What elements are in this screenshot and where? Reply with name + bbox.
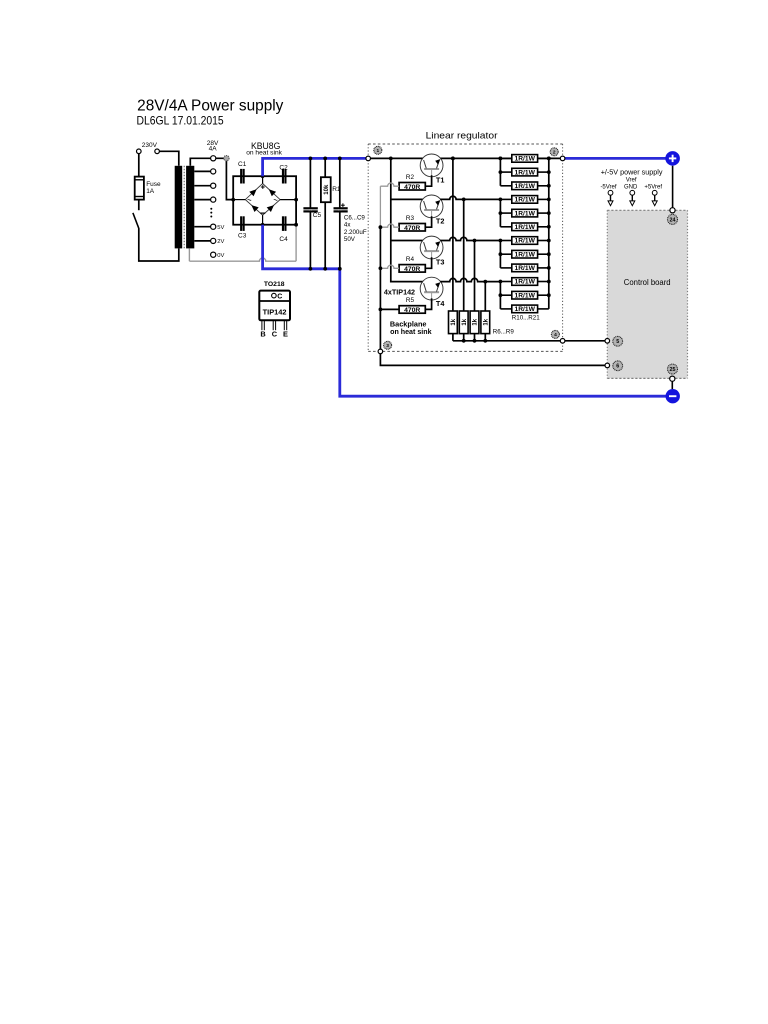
package TO218 pin B (261, 320, 263, 330)
svg-text:1R/1W: 1R/1W (515, 252, 536, 258)
wire base T4 (425, 298, 432, 309)
pin 2 (560, 156, 565, 161)
wire R12 stubs (500, 185, 511, 187)
wire 1R collect line (548, 158, 550, 309)
svg-text:230V: 230V (142, 142, 158, 149)
pin 24 (668, 214, 678, 224)
capacitor C5 (303, 207, 317, 209)
svg-text:Fuse: Fuse (146, 181, 161, 188)
svg-text:4A: 4A (209, 145, 218, 152)
svg-text:1k: 1k (462, 318, 468, 325)
capacitor C2 (282, 169, 284, 184)
svg-text:C4: C4 (279, 236, 288, 243)
wire base drive bus upper (gray) (379, 186, 381, 227)
terminal +5Vref arrow (652, 190, 657, 195)
wire R16 stubs (500, 240, 511, 242)
svg-text:+/-5V power supply: +/-5V power supply (601, 168, 663, 177)
resistor R1 (321, 177, 331, 202)
svg-text:TO218: TO218 (264, 281, 285, 288)
resistor R7 1k (459, 311, 468, 334)
svg-text:E: E (283, 330, 288, 339)
wire 230V live to fuse (138, 154, 140, 177)
terminal X1-1 (137, 149, 142, 154)
wire R15 stubs (500, 226, 511, 228)
node tap ellipsis dots (210, 208, 212, 210)
resistor R9 1k (481, 311, 490, 334)
diode D4 (lower-right) (267, 205, 274, 212)
svg-text:1R/1W: 1R/1W (515, 239, 536, 245)
svg-text:1R/1W: 1R/1W (515, 293, 536, 299)
terminal tap 2V (211, 238, 216, 243)
wire tap stub 3 (194, 185, 210, 187)
wire R13 stubs (500, 198, 511, 200)
svg-text:GND: GND (624, 185, 638, 191)
pin 6 (605, 363, 610, 368)
wire pin3 to pin6 (380, 354, 607, 366)
wire R20 stubs (500, 294, 511, 296)
svg-text:+5Vref: +5Vref (644, 185, 662, 191)
svg-text:Control board: Control board (624, 277, 671, 287)
package TO218 pin C (272, 320, 274, 330)
svg-text:on heat sink: on heat sink (246, 150, 282, 157)
node collect junctions (547, 157, 551, 161)
svg-text:6: 6 (616, 364, 619, 370)
svg-text:3: 3 (386, 343, 389, 349)
resistor R4 470R (399, 265, 425, 273)
svg-text:1A: 1A (146, 188, 155, 195)
rectifier B1 diamond (245, 184, 280, 216)
wire 0V return (gray) (188, 248, 190, 261)
svg-text:470R: 470R (404, 225, 420, 232)
wire tap stub 2V (194, 240, 210, 242)
node bridge minus mark (260, 212, 265, 214)
diode D2 (upper-right) (269, 189, 276, 196)
wire emitter sense 1 (452, 158, 454, 311)
wire base drive R2 (gray) (380, 183, 399, 186)
wire R17 stubs (500, 253, 511, 255)
rectifier B1 body (233, 176, 296, 225)
wire tap stub 4 (194, 199, 210, 201)
wire capacitor C5 leads (309, 158, 311, 268)
wire switch to transformer primary (139, 228, 179, 261)
capacitor C4 (282, 216, 284, 231)
svg-text:Linear regulator: Linear regulator (426, 130, 498, 141)
resistor R21 1R/1W (512, 305, 538, 313)
wire R19 stubs (500, 281, 511, 283)
terminal tap 4 (211, 197, 216, 202)
svg-text:DL6GL 17.01.2015: DL6GL 17.01.2015 (137, 114, 225, 128)
svg-text:470R: 470R (404, 184, 420, 191)
svg-text:R2: R2 (406, 174, 415, 181)
svg-text:10k: 10k (324, 184, 330, 195)
control board (607, 210, 687, 378)
wire 1R group 4 feed (499, 282, 501, 309)
node bridge junction dots (231, 198, 235, 202)
svg-text:1R/1W: 1R/1W (515, 170, 536, 176)
terminal GND arrow (630, 190, 635, 195)
transistor T1 (420, 154, 443, 177)
wire 28V tap (190, 158, 210, 166)
transformer TR1 core (183, 166, 185, 249)
wire 1R group 3 feed (499, 241, 501, 268)
node filter junction dots (309, 157, 313, 161)
svg-text:1R/1W: 1R/1W (515, 211, 536, 217)
svg-text:T1: T1 (436, 176, 445, 185)
svg-text:C6...C9: C6...C9 (344, 214, 366, 221)
svg-text:50V: 50V (344, 236, 356, 243)
svg-text:on heat sink: on heat sink (390, 327, 432, 336)
wire base drive R5 (380, 308, 399, 310)
resistor R17 1R/1W (512, 250, 538, 258)
svg-text:1R/1W: 1R/1W (515, 225, 536, 231)
svg-text:-5Vref: -5Vref (600, 185, 616, 191)
node junction pad 28V (224, 156, 229, 161)
resistor R13 1R/1W (512, 196, 538, 204)
wire base drive R3 hop (gray) (380, 224, 399, 227)
wire tap stub 5V (194, 226, 210, 228)
svg-text:R4: R4 (406, 256, 415, 263)
wire 1R group 1 feed (499, 158, 501, 185)
node 1k bus junctions (462, 339, 466, 343)
diode D1 (upper-left) (249, 189, 256, 196)
capacitor C6..C9 (334, 207, 348, 209)
transformer TR1 secondary winding (186, 166, 194, 249)
wire base T2 (425, 216, 432, 227)
capacitor C1 (240, 169, 242, 184)
wire +raw blue bus (bridge to regulator) (263, 158, 369, 176)
wire emitter row T3 (440, 237, 500, 240)
svg-text:470R: 470R (404, 266, 420, 273)
wire base drive R4 hop (gray) (380, 265, 399, 268)
wire emitter sense 3 (474, 241, 476, 312)
wire emitter sense 2 (463, 199, 465, 311)
wire -raw blue bus (263, 225, 667, 397)
wire tap stub 2 (194, 170, 210, 172)
pin 25 (668, 364, 678, 374)
resistor R2 470R (399, 183, 425, 191)
svg-text:4: 4 (554, 332, 557, 338)
switch S1 (133, 213, 139, 229)
fuse F1 (135, 177, 144, 200)
resistor R20 1R/1W (512, 291, 538, 299)
wire resistor R1 leads (324, 158, 326, 268)
svg-text:1R/1W: 1R/1W (515, 157, 536, 163)
terminal tap 28V (211, 156, 216, 161)
svg-text:0V: 0V (217, 253, 224, 259)
wire collector distribution (391, 158, 423, 281)
svg-text:24: 24 (670, 217, 676, 223)
svg-text:T3: T3 (436, 258, 445, 267)
wire base T3 (425, 257, 432, 268)
svg-text:5V: 5V (217, 225, 224, 231)
wire R21 stubs (500, 308, 511, 310)
svg-text:R10...R21: R10...R21 (512, 315, 540, 322)
resistor R11 1R/1W (512, 168, 538, 176)
svg-text:C1: C1 (238, 161, 247, 168)
svg-text:1: 1 (376, 148, 379, 154)
wire emitter row T2 (440, 196, 500, 199)
svg-text:TIP142: TIP142 (263, 307, 287, 316)
wire + terminal to board pin24 (672, 166, 674, 209)
wire base T1 (425, 175, 432, 186)
pin 25 terminal (670, 376, 675, 381)
wire capacitor C6 leads (339, 158, 341, 268)
transformer TR1 primary winding (175, 166, 183, 249)
transistor T2 (420, 195, 443, 218)
svg-text:C: C (272, 330, 278, 339)
svg-text:C3: C3 (238, 233, 247, 240)
svg-text:R5: R5 (406, 297, 415, 304)
wire R14 stubs (500, 212, 511, 214)
wire 1R group 2 feed (499, 199, 501, 226)
wire fuse to switch (138, 200, 140, 211)
svg-text:2: 2 (553, 150, 556, 156)
node bridge AC marks (248, 199, 252, 200)
svg-text:T2: T2 (436, 217, 445, 226)
wire 230V neutral to primary top (159, 151, 179, 166)
package TO218 mounting hole (272, 293, 277, 298)
wire +raw blue bus (regulator to + terminal) (565, 157, 666, 160)
svg-text:1R/1W: 1R/1W (515, 280, 536, 286)
terminal tap 0V (211, 252, 216, 257)
svg-text:B: B (260, 330, 265, 339)
diode D3 (lower-left) (251, 205, 258, 212)
terminal -5Vref arrow (608, 190, 613, 195)
resistor R16 1R/1W (512, 237, 538, 245)
transistor T4 (420, 277, 443, 300)
svg-text:C5: C5 (313, 212, 322, 219)
terminal tap 5V (211, 224, 216, 229)
node base bus junctions (379, 225, 383, 229)
svg-text:1R/1W: 1R/1W (515, 307, 536, 313)
svg-text:1R/1W: 1R/1W (515, 266, 536, 272)
svg-text:R3: R3 (406, 215, 415, 222)
svg-text:1k: 1k (451, 318, 457, 325)
terminal tap 2 (211, 169, 216, 174)
resistor R6 1k (449, 311, 458, 334)
node bridge plus mark (261, 186, 265, 188)
wire 28V tap to bridge AC1 (216, 158, 233, 199)
resistor R8 1k (470, 311, 479, 334)
svg-text:C: C (277, 294, 282, 301)
wire bridge stubs (262, 176, 264, 183)
terminal - (blue) (666, 389, 680, 403)
wire R18 stubs (500, 267, 511, 269)
wire 1k bottom bus to pin4 (453, 340, 607, 342)
resistor R10 1R/1W (512, 155, 538, 163)
svg-text:25: 25 (670, 367, 676, 373)
package TO218 pin E (283, 320, 285, 330)
svg-text:R6...R9: R6...R9 (493, 328, 515, 335)
svg-text:2V: 2V (217, 239, 224, 245)
svg-text:1R/1W: 1R/1W (515, 198, 536, 204)
wire R10 stubs (500, 157, 511, 159)
terminal tap 3 (211, 183, 216, 188)
resistor R5 470R (399, 306, 425, 314)
wire base drive bus lower (379, 227, 381, 351)
svg-text:4x: 4x (344, 222, 351, 229)
node top bus junctions (389, 157, 393, 161)
node emitter junction dots (451, 157, 455, 161)
svg-text:4xTIP142: 4xTIP142 (384, 288, 415, 297)
pin 3 (378, 349, 383, 354)
capacitor C3 (240, 216, 242, 231)
svg-text:2.200uF: 2.200uF (344, 229, 367, 236)
svg-text:470R: 470R (404, 307, 420, 314)
resistor R14 1R/1W (512, 209, 538, 217)
terminal X1-2 (155, 149, 160, 154)
resistor R15 1R/1W (512, 223, 538, 231)
wire regulator + bus (368, 157, 423, 159)
wire emitter sense 4 (484, 282, 486, 311)
svg-text:T4: T4 (436, 299, 445, 308)
transistor T3 (420, 236, 443, 259)
wire emitter row T4 (440, 278, 500, 281)
svg-text:1k: 1k (483, 318, 489, 325)
svg-text:28V/4A Power supply: 28V/4A Power supply (137, 98, 284, 115)
resistor R18 1R/1W (512, 264, 538, 272)
package TO218 outline (259, 291, 290, 321)
svg-text:1k: 1k (473, 318, 479, 325)
resistor R19 1R/1W (512, 278, 538, 286)
pin 4 (560, 339, 565, 344)
svg-text:1R/1W: 1R/1W (515, 184, 536, 190)
resistor R12 1R/1W (512, 182, 538, 190)
linear regulator block outline (368, 143, 562, 145)
resistor R3 470R (399, 224, 425, 232)
wire - terminal to board pin25 (671, 381, 673, 389)
pin 1 (366, 156, 371, 161)
svg-text:5: 5 (616, 339, 619, 345)
wire R11 stubs (500, 171, 511, 173)
svg-text:Vref: Vref (626, 177, 637, 183)
pin 24 terminal (670, 208, 675, 213)
svg-text:C2: C2 (279, 164, 288, 171)
terminal + (blue) (665, 151, 680, 166)
pin 5 (605, 339, 610, 344)
